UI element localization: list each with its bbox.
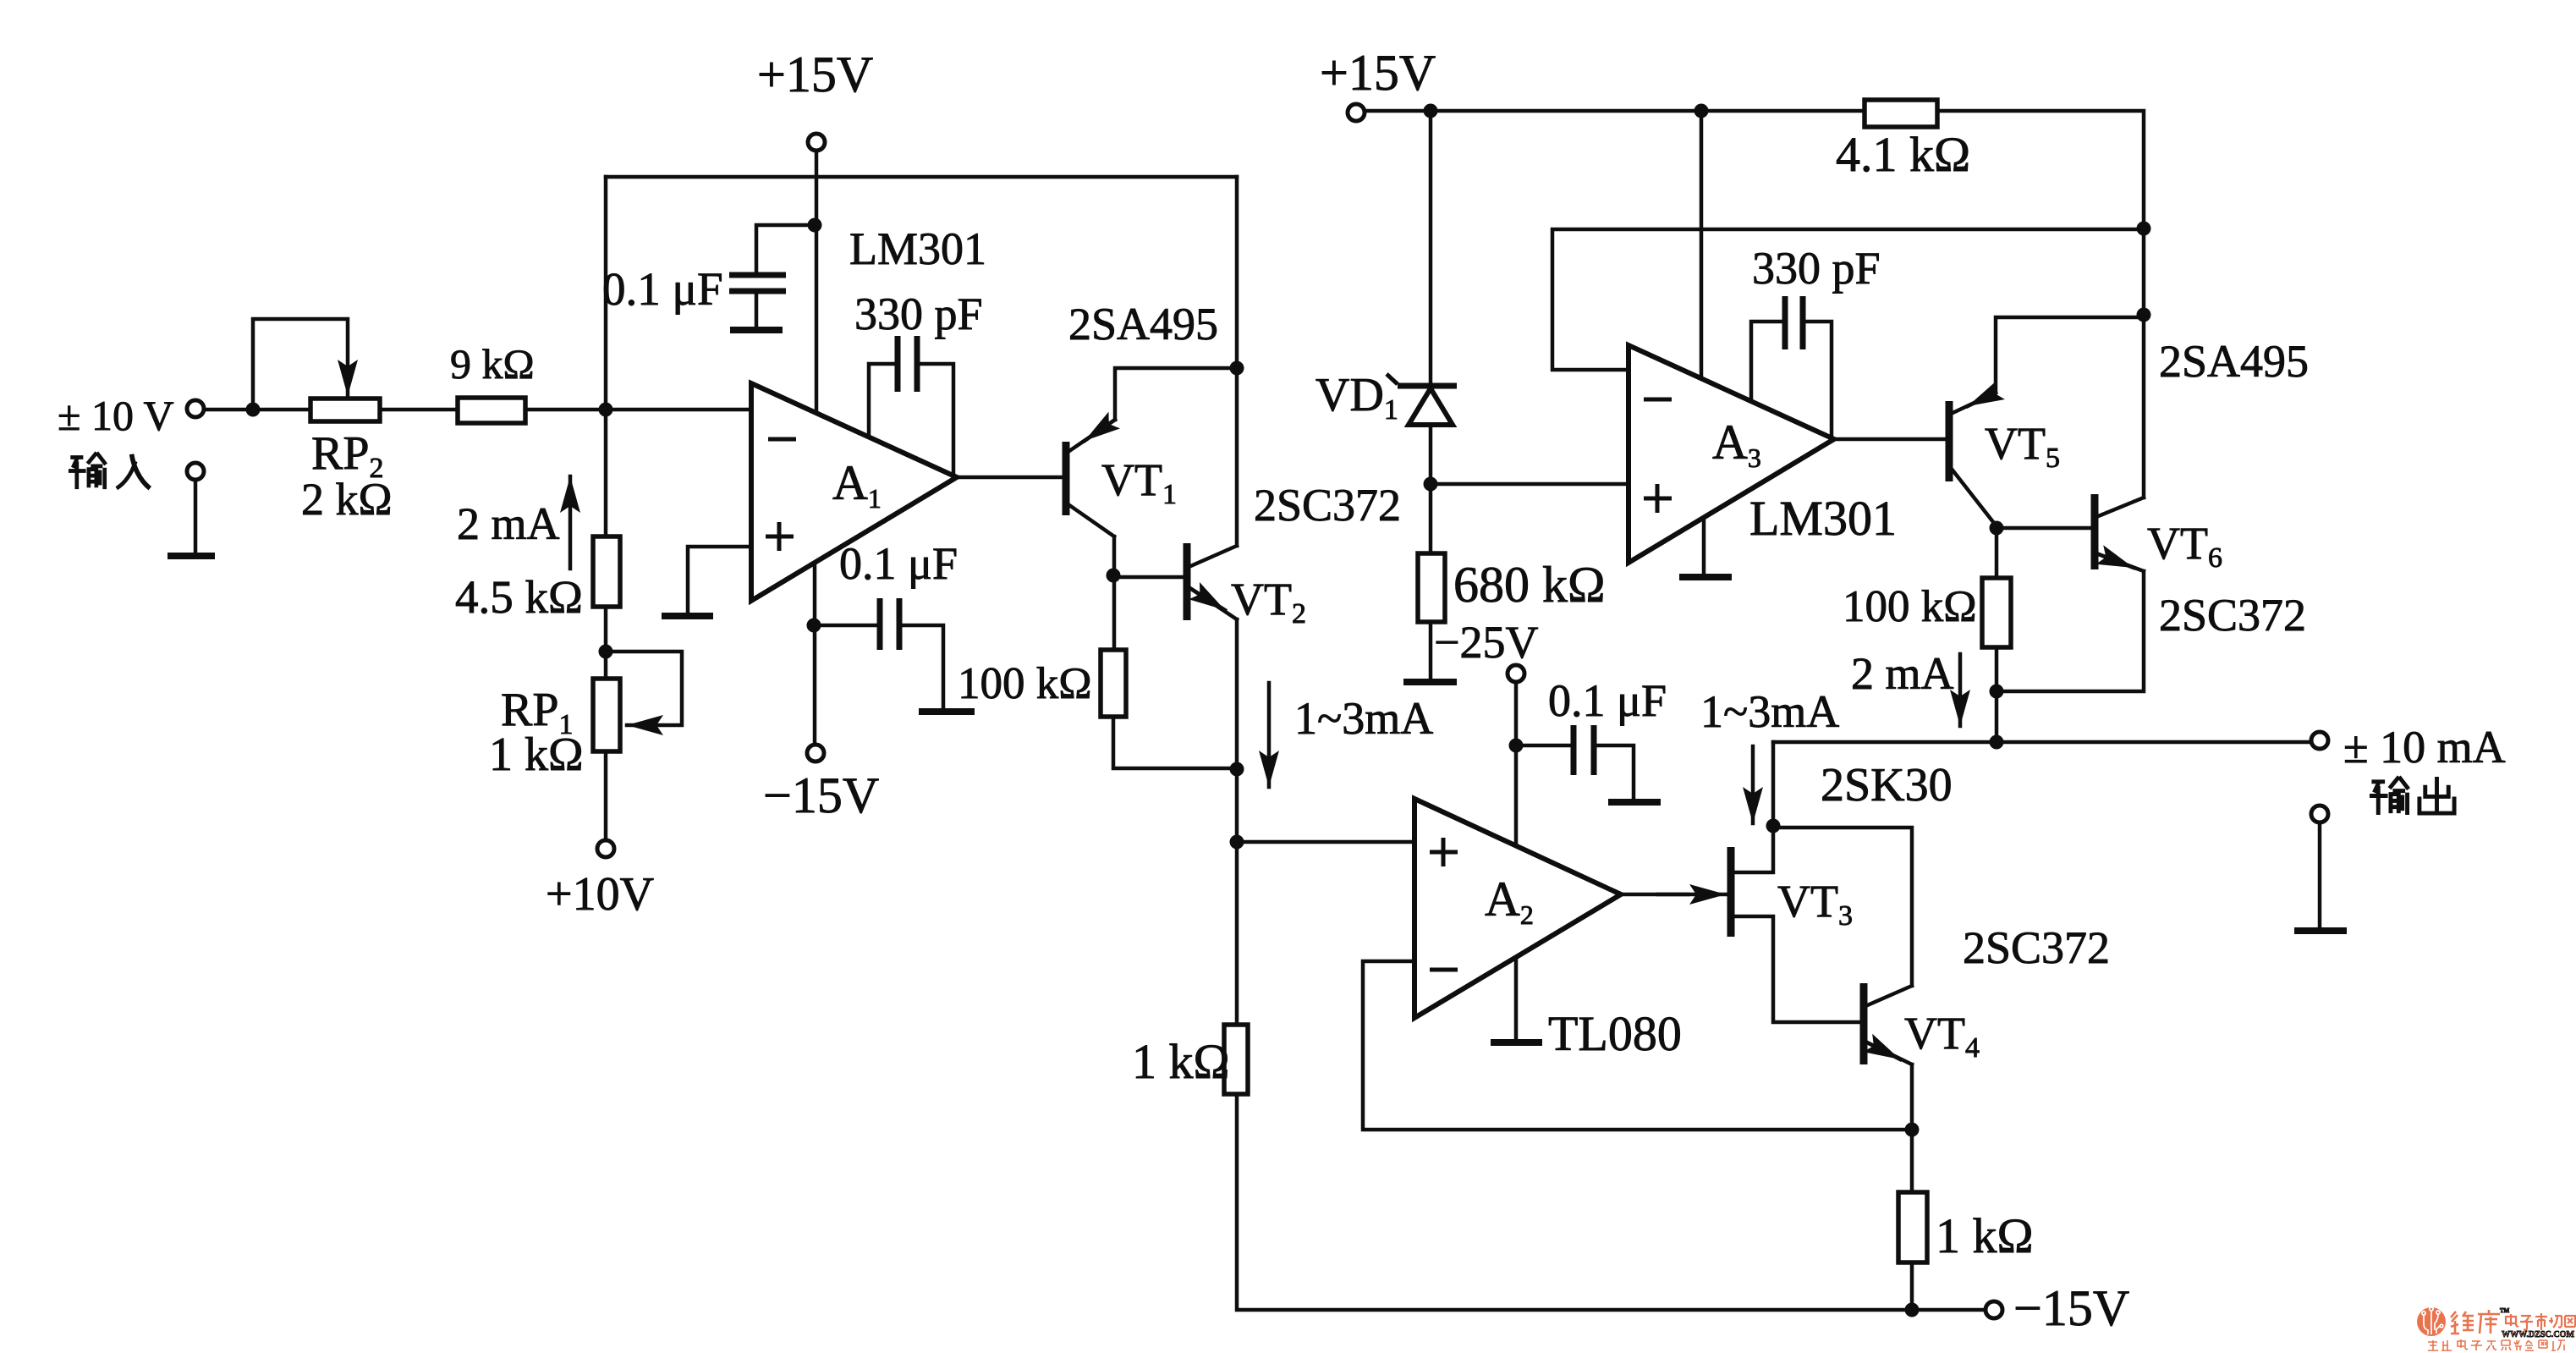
svg-text:2SA495: 2SA495: [1068, 299, 1218, 349]
svg-text:2SC372: 2SC372: [2159, 590, 2306, 641]
svg-text:+10V: +10V: [546, 868, 654, 921]
svg-text:2 kΩ: 2 kΩ: [301, 474, 393, 525]
svg-text:330 pF: 330 pF: [1752, 243, 1881, 294]
svg-text:−15V: −15V: [2013, 1280, 2129, 1336]
svg-text:1~3mA: 1~3mA: [1700, 686, 1839, 737]
svg-text:WWW.DZSC.COM: WWW.DZSC.COM: [2502, 1330, 2574, 1339]
svg-text:2SC372: 2SC372: [1963, 922, 2110, 973]
svg-text:TM: TM: [2500, 1307, 2510, 1314]
svg-text:2 mA: 2 mA: [457, 498, 560, 549]
svg-text:2SC372: 2SC372: [1254, 480, 1401, 531]
svg-text:TL080: TL080: [1548, 1006, 1682, 1061]
svg-text:100 kΩ: 100 kΩ: [958, 659, 1092, 708]
svg-text:LM301: LM301: [1749, 491, 1897, 546]
svg-text:4.5 kΩ: 4.5 kΩ: [455, 571, 583, 623]
svg-text:0.1 μF: 0.1 μF: [1548, 675, 1667, 726]
svg-text:1~3mA: 1~3mA: [1294, 693, 1433, 744]
svg-text:9 kΩ: 9 kΩ: [450, 340, 535, 388]
svg-text:2 mA: 2 mA: [1851, 648, 1954, 699]
svg-text:± 10 V: ± 10 V: [58, 392, 174, 439]
svg-text:1 kΩ: 1 kΩ: [1132, 1034, 1230, 1089]
svg-text:2SK30: 2SK30: [1821, 759, 1953, 811]
svg-text:−25V: −25V: [1434, 617, 1538, 668]
svg-text:100 kΩ: 100 kΩ: [1843, 582, 1977, 631]
svg-text:0.1 μF: 0.1 μF: [839, 538, 958, 589]
svg-text:4.1 kΩ: 4.1 kΩ: [1836, 127, 1970, 182]
svg-text:1 kΩ: 1 kΩ: [489, 729, 584, 781]
svg-text:2SA495: 2SA495: [2159, 336, 2309, 387]
svg-text:± 10 mA: ± 10 mA: [2343, 722, 2506, 773]
svg-text:680 kΩ: 680 kΩ: [1453, 557, 1606, 613]
svg-text:+15V: +15V: [757, 47, 873, 102]
svg-text:−15V: −15V: [763, 767, 879, 823]
svg-text:LM301: LM301: [849, 223, 986, 274]
svg-text:1 kΩ: 1 kΩ: [1936, 1208, 2034, 1263]
svg-text:0.1 μF: 0.1 μF: [602, 263, 723, 315]
svg-text:+15V: +15V: [1320, 45, 1436, 101]
svg-text:330 pF: 330 pF: [854, 289, 983, 339]
